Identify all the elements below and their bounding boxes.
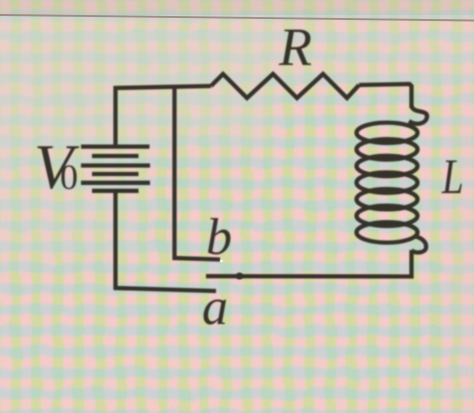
inductor L xyxy=(357,106,428,252)
page edge line at top xyxy=(0,15,474,21)
svg-text:L: L xyxy=(441,148,464,204)
svg-text:a: a xyxy=(202,279,228,336)
battery V0 xyxy=(81,147,150,191)
svg-text:0: 0 xyxy=(60,157,78,197)
wire bottom-left: battery bottom lead and run to node a xyxy=(116,192,217,291)
wire top-left: battery top lead and top horizontal run xyxy=(116,86,212,148)
label V0 (battery value) xyxy=(34,131,80,202)
wire right-bottom: inductor bottom lead and switch-arm run xyxy=(206,250,412,277)
svg-text:R: R xyxy=(278,17,312,77)
wire top-right: run to corner and down xyxy=(359,84,412,108)
wire to node b: inner-left vertical branch xyxy=(175,88,221,260)
switch contact dot on blade xyxy=(236,273,243,280)
bright speck near node b terminal xyxy=(220,260,223,263)
svg-text:b: b xyxy=(206,209,232,266)
resistor R xyxy=(211,74,359,98)
